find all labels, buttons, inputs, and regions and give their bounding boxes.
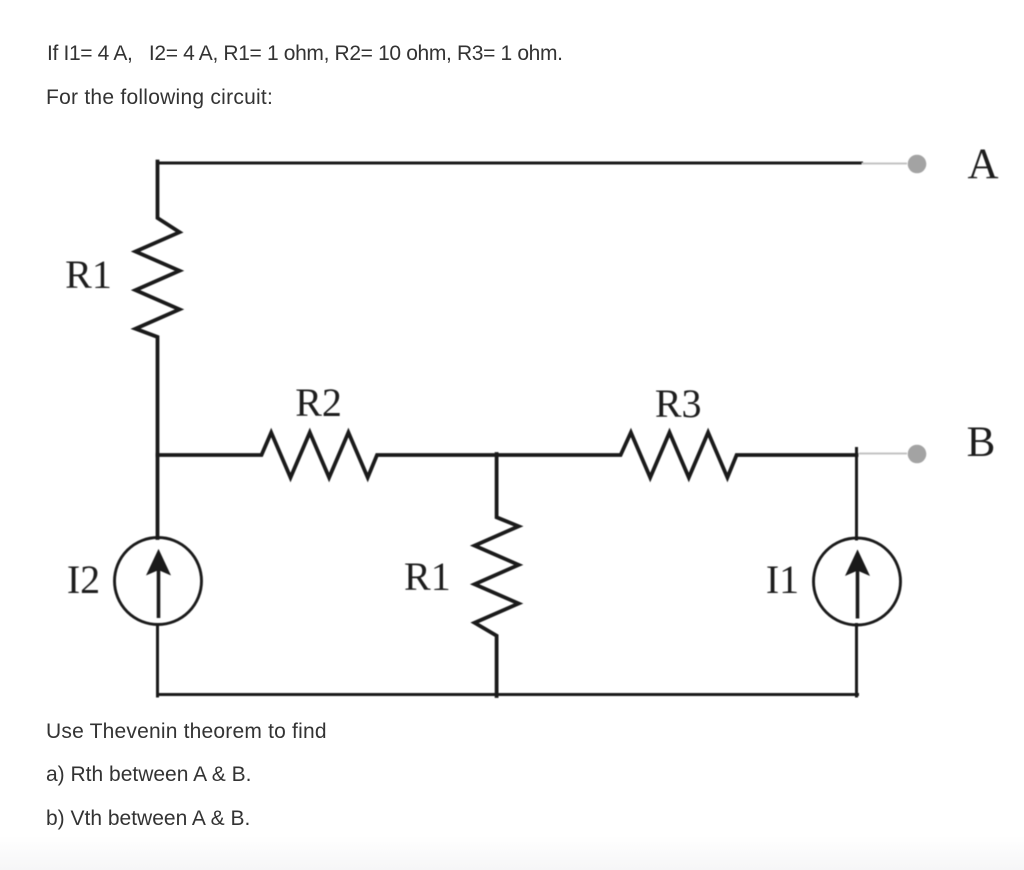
svg-text:R1: R1: [65, 252, 112, 297]
svg-text:B: B: [967, 419, 996, 466]
svg-text:R1: R1: [404, 554, 451, 599]
svg-text:I1: I1: [766, 557, 799, 602]
svg-text:I2: I2: [67, 557, 100, 602]
svg-text:R3: R3: [655, 381, 702, 426]
svg-text:A: A: [967, 141, 998, 188]
svg-text:R2: R2: [295, 380, 342, 425]
